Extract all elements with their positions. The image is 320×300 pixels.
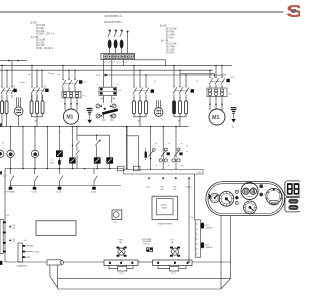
button 1 bbox=[288, 199, 298, 204]
svg-text:19 42 4: 19 42 4 bbox=[166, 53, 174, 55]
svg-text:POT 1: POT 1 bbox=[119, 273, 124, 275]
svg-text:C1: C1 bbox=[12, 86, 16, 88]
board input contact 4 bbox=[92, 169, 97, 190]
svg-text:AUTO: AUTO bbox=[271, 202, 277, 205]
svg-text:C06: C06 bbox=[23, 240, 26, 242]
contactor C4 bbox=[133, 86, 149, 100]
wire drops to contactor C5 bbox=[173, 65, 186, 87]
instrument pod outline bbox=[206, 182, 285, 216]
svg-text:95 7 4W: 95 7 4W bbox=[166, 47, 175, 49]
slab front top edge bbox=[58, 278, 231, 280]
node on L1 bbox=[17, 60, 19, 62]
svg-text:<100n: <100n bbox=[49, 162, 54, 165]
svg-text:CN: CN bbox=[12, 227, 15, 229]
wire drops to contactor C3 bbox=[62, 65, 75, 80]
wire drops to contactor C4 bbox=[133, 65, 146, 87]
main switch Q1 pole 2 bbox=[114, 30, 117, 54]
header rule bbox=[0, 11, 284, 13]
svg-text:95 41 4: 95 41 4 bbox=[166, 37, 174, 39]
svg-text:50VA: 50VA bbox=[162, 207, 167, 210]
contactor C5 bbox=[173, 86, 189, 101]
motor M4 bbox=[31, 126, 38, 169]
svg-text:05 2x1W: 05 2x1W bbox=[36, 40, 46, 42]
aux contact C5 bbox=[191, 89, 194, 92]
label dip cal bbox=[170, 239, 174, 243]
svg-text:Ex.MX: Ex.MX bbox=[160, 25, 167, 27]
svg-text:C2: C2 bbox=[44, 86, 48, 88]
svg-text:05 x 5W: 05 x 5W bbox=[166, 50, 175, 52]
terminal labels bbox=[146, 186, 192, 190]
aux contact C1 bbox=[13, 89, 16, 92]
node on L1 bbox=[8, 60, 10, 62]
svg-text:C06: C06 bbox=[6, 215, 9, 217]
wire right jog upper bbox=[180, 74, 215, 78]
board input contact 2 bbox=[33, 169, 38, 190]
bottom wire left bbox=[5, 261, 47, 263]
capacitor 100n bbox=[58, 160, 61, 165]
svg-text:220n: 220n bbox=[96, 75, 101, 77]
svg-text:LOADER: LOADER bbox=[205, 226, 213, 229]
board terminals row bbox=[148, 168, 190, 179]
svg-text:LOADER: LOADER bbox=[205, 246, 213, 249]
svg-text:POT 2: POT 2 bbox=[171, 273, 176, 275]
button box bbox=[285, 197, 301, 212]
motor M1 left bbox=[63, 109, 78, 124]
main drop thick bbox=[126, 126, 128, 169]
external pot POT2 bbox=[158, 265, 186, 271]
IC U1 bbox=[36, 221, 76, 236]
svg-text:A-CAL: A-CAL bbox=[91, 191, 96, 194]
coil block C9 bbox=[207, 88, 227, 96]
label CN2 bbox=[23, 240, 39, 253]
overload relay F1 bbox=[62, 91, 81, 98]
solenoid V1 bbox=[56, 126, 63, 160]
svg-text:95 x 4W: 95 x 4W bbox=[166, 34, 175, 36]
test point P11 bbox=[9, 239, 15, 243]
bus L2 bbox=[0, 65, 232, 67]
motor M1 right bbox=[209, 109, 225, 125]
gauge G3 bbox=[244, 201, 257, 214]
bus L1 left segment bbox=[0, 60, 27, 62]
display box 88 bbox=[285, 181, 301, 196]
bridge filter F2 bbox=[99, 87, 117, 95]
svg-text:xxXx: xxXx bbox=[146, 186, 150, 188]
svg-text:4x: 4x bbox=[2, 142, 5, 144]
svg-text:S-CAL: S-CAL bbox=[34, 250, 39, 253]
leads F6 bbox=[134, 114, 146, 127]
supply label bbox=[104, 16, 124, 24]
plug NO1 bbox=[201, 223, 205, 229]
contactor C3 bbox=[62, 79, 78, 91]
cable tab bbox=[47, 260, 61, 265]
slab right back edge bbox=[230, 262, 232, 279]
sub-wire mid 2 bbox=[127, 136, 139, 170]
svg-text:M1: M1 bbox=[66, 114, 73, 120]
legend block left bbox=[30, 22, 55, 50]
svg-text:AV: AV bbox=[178, 119, 181, 122]
svg-text:F1: F1 bbox=[83, 95, 86, 97]
rail bottom bbox=[5, 168, 128, 170]
overload bar F4b bbox=[5, 101, 8, 114]
slab right bevel bbox=[221, 279, 231, 289]
seven segment digit 2 bbox=[294, 183, 300, 195]
leads F7 bbox=[174, 114, 186, 127]
svg-text:05 x 4W: 05 x 4W bbox=[36, 31, 45, 33]
hopper wire bbox=[188, 178, 190, 263]
wire X1 right jog bbox=[135, 60, 166, 66]
svg-text:CAL: CAL bbox=[170, 241, 174, 244]
capacitor block near M1 bbox=[87, 108, 93, 114]
gauge G2 bbox=[219, 191, 234, 206]
board input contact 1 bbox=[9, 169, 14, 190]
connector CN1 left edge bbox=[0, 219, 6, 253]
svg-text:C06: C06 bbox=[3, 176, 8, 178]
svg-text:CN: CN bbox=[12, 241, 15, 243]
label trim cal bbox=[118, 239, 123, 243]
svg-text:Ex.MX: Ex.MX bbox=[30, 22, 37, 24]
wire strip to connector bbox=[194, 174, 196, 220]
leads C9 to M1 right bbox=[209, 96, 223, 110]
leads F5 bbox=[32, 95, 43, 127]
solenoid V2 bbox=[69, 126, 75, 169]
pump motor P2 bbox=[154, 100, 163, 116]
label 100n bbox=[49, 160, 54, 165]
mark top right bbox=[232, 126, 234, 128]
instrument pod inner outline bbox=[208, 184, 282, 214]
plug NO2 bbox=[201, 242, 205, 248]
solenoid V4 bbox=[106, 135, 113, 168]
svg-text:C3: C3 bbox=[84, 82, 88, 84]
svg-text:95 4 5N: 95 4 5N bbox=[166, 31, 174, 33]
connector CN5 bbox=[195, 220, 200, 257]
leads F4 bbox=[2, 114, 7, 127]
program dial bbox=[266, 188, 282, 204]
bus mid bbox=[0, 126, 189, 128]
aux contact C4 bbox=[151, 89, 154, 92]
terminal block X1 bbox=[101, 54, 135, 60]
bus L4 bbox=[105, 74, 227, 76]
wire drop mid bbox=[22, 126, 23, 169]
board top edge left bbox=[9, 184, 121, 186]
button 2 bbox=[288, 205, 298, 210]
wire drops to contactor C1 bbox=[1, 61, 12, 87]
svg-text:220V/50/60Hz 3 ~: 220V/50/60Hz 3 ~ bbox=[105, 16, 124, 18]
connector CN2 bbox=[18, 243, 33, 262]
logo S (red, clipped at right edge) bbox=[286, 1, 303, 21]
leads below bridge bbox=[101, 95, 115, 103]
legend block right bbox=[160, 25, 177, 54]
svg-text:05 x 4W: 05 x 4W bbox=[36, 45, 45, 47]
svg-text:2.5mm: 2.5mm bbox=[19, 82, 26, 84]
connector strip CN3 bbox=[104, 260, 138, 265]
aux contact C6 bbox=[226, 79, 229, 82]
small icon A bbox=[260, 185, 266, 188]
main switch Q1 pole 3 bbox=[120, 30, 123, 54]
svg-text:05 4 3N: 05 4 3N bbox=[36, 28, 44, 30]
main switch Q1 pole 1 bbox=[108, 30, 111, 54]
contactor C6 bbox=[209, 77, 225, 88]
wire X1 to bridge 2 bbox=[111, 60, 113, 88]
thermal switch T2 bbox=[159, 126, 170, 169]
lead to ground right bbox=[233, 113, 235, 119]
connector strip CN4 bbox=[153, 260, 193, 265]
svg-text:95 3.5 4W: 95 3.5 4W bbox=[166, 28, 177, 30]
label external program bbox=[142, 238, 152, 246]
slab left front edge bbox=[57, 265, 59, 289]
svg-text:LAVAMAT(S): LAVAMAT(S) bbox=[17, 264, 28, 267]
svg-text:05 46 - 104 4D 4: 05 46 - 104 4D 4 bbox=[36, 48, 54, 50]
slab left bevel bbox=[50, 276, 58, 288]
wire X1 drop bbox=[122, 60, 124, 66]
svg-text:AV: AV bbox=[35, 119, 38, 122]
svg-text:E-CAL: E-CAL bbox=[31, 191, 36, 194]
pod pointer bbox=[209, 193, 212, 199]
page edge mark 1 bbox=[0, 123, 2, 126]
svg-text:Ex.YRL: Ex.YRL bbox=[161, 41, 170, 43]
terminal strip row right bbox=[123, 169, 203, 174]
svg-text:CAL: CAL bbox=[119, 241, 123, 244]
aux contact C3 bbox=[79, 80, 82, 83]
overload bars F5 under C2 bbox=[30, 101, 44, 114]
svg-text:05 5/04 - 10N 7-4: 05 5/04 - 10N 7-4 bbox=[36, 34, 55, 36]
lead V1 bbox=[58, 165, 60, 169]
leads F1 to M1 bbox=[64, 98, 78, 111]
svg-text:UNI: UNI bbox=[198, 172, 202, 174]
overload bar F4a bbox=[1, 101, 4, 114]
svg-text:C9: C9 bbox=[228, 93, 232, 95]
svg-text:TxD: TxD bbox=[173, 189, 177, 191]
pod wire 2 bbox=[230, 216, 232, 262]
terminal pin labels bbox=[105, 61, 129, 63]
trimmer pot VR1 bbox=[116, 247, 126, 257]
relay contact boxes on rail bbox=[117, 166, 124, 171]
svg-text:EXTERNAL: EXTERNAL bbox=[5, 191, 15, 194]
cable mark left edge bbox=[0, 261, 2, 265]
motor M3 bbox=[7, 126, 14, 169]
svg-text:220V/440V/50Hz ~: 220V/440V/50Hz ~ bbox=[104, 22, 124, 24]
wire drops to contactor C2 bbox=[31, 65, 42, 87]
motor M2 clipped bbox=[0, 150, 4, 157]
wire drop mid 2 bbox=[47, 126, 48, 169]
overload bars F6 under C4 bbox=[133, 101, 148, 114]
board input contact 3 bbox=[58, 169, 63, 190]
ground PE right bbox=[231, 119, 235, 123]
svg-text:05 3 3N: 05 3 3N bbox=[36, 42, 44, 44]
switch S1 bbox=[76, 126, 80, 169]
contactor C2 bbox=[31, 86, 45, 100]
wire tag 220n bbox=[105, 74, 109, 77]
svg-text:RL1: RL1 bbox=[114, 222, 117, 224]
thermal switch T3 bbox=[172, 126, 183, 169]
ground PE left bbox=[87, 120, 91, 124]
seven segment digit 1 bbox=[287, 183, 293, 195]
svg-text:M1: M1 bbox=[212, 115, 220, 121]
wire drops to contactor C6 bbox=[209, 65, 222, 78]
label NO2 bbox=[205, 244, 213, 249]
thermal switch T1 bbox=[148, 126, 155, 169]
slab bottom edge bbox=[58, 288, 221, 290]
bottom wire mid2 bbox=[138, 261, 153, 263]
relay RL1 bbox=[112, 210, 122, 220]
pump motor P1 bbox=[14, 97, 23, 126]
solenoid V3 bbox=[94, 157, 101, 168]
slab left back edge bbox=[49, 265, 51, 276]
bottom wire mid bbox=[63, 261, 104, 263]
svg-text:2.5mm: 2.5mm bbox=[48, 73, 55, 75]
indicator column bbox=[235, 190, 242, 204]
dual dial gauge bbox=[241, 183, 258, 200]
svg-text:C9x: C9x bbox=[190, 217, 193, 219]
switch S2 bbox=[95, 135, 101, 158]
svg-text:B-CAL: B-CAL bbox=[56, 191, 61, 194]
button label marks bbox=[290, 201, 296, 207]
external pot POT1 bbox=[109, 265, 133, 271]
transformer TR1 bbox=[152, 196, 178, 219]
left long wire bbox=[4, 169, 6, 263]
voltage selector K1 bbox=[96, 104, 118, 120]
svg-text:220/24: 220/24 bbox=[160, 205, 167, 207]
capacitor block right bbox=[231, 108, 237, 114]
trimmer pot VR2 bbox=[170, 247, 180, 257]
svg-text:SW. 0-9: SW. 0-9 bbox=[143, 244, 149, 246]
contactor C1 bbox=[1, 86, 15, 100]
label NO1 bbox=[205, 225, 213, 230]
small icon B bbox=[260, 193, 266, 196]
bus L3 bbox=[0, 69, 213, 71]
svg-text:95 3.1 4W: 95 3.1 4W bbox=[166, 44, 177, 46]
pin number smudges bbox=[1, 63, 230, 166]
svg-text:TRANSFORMER: TRANSFORMER bbox=[157, 223, 172, 226]
lead to ground bbox=[89, 114, 91, 120]
svg-text:05 2x1W: 05 2x1W bbox=[36, 25, 46, 27]
svg-text:C4: C4 bbox=[231, 77, 235, 79]
test point P10 bbox=[9, 225, 15, 229]
overload bars F7 under C5 bbox=[173, 101, 188, 114]
slab top edge bbox=[192, 261, 231, 263]
aux contact C2 bbox=[45, 89, 48, 92]
DIP switch SW1 bbox=[146, 247, 153, 251]
gauge G1 bbox=[210, 193, 219, 202]
pod wire 1 bbox=[220, 216, 222, 289]
wire X1 to bridge bbox=[103, 60, 105, 88]
svg-text:AV: AV bbox=[138, 119, 141, 122]
svg-text:F3: F3 bbox=[119, 90, 122, 92]
sub-wire mid bbox=[77, 134, 110, 136]
svg-text:Ex.YRL: Ex.YRL bbox=[31, 37, 40, 39]
resistor R1 bbox=[145, 148, 147, 160]
page edge mark 2 bbox=[0, 171, 2, 174]
neutral wire pole 4 bbox=[127, 31, 128, 54]
cable lug bbox=[61, 260, 64, 264]
